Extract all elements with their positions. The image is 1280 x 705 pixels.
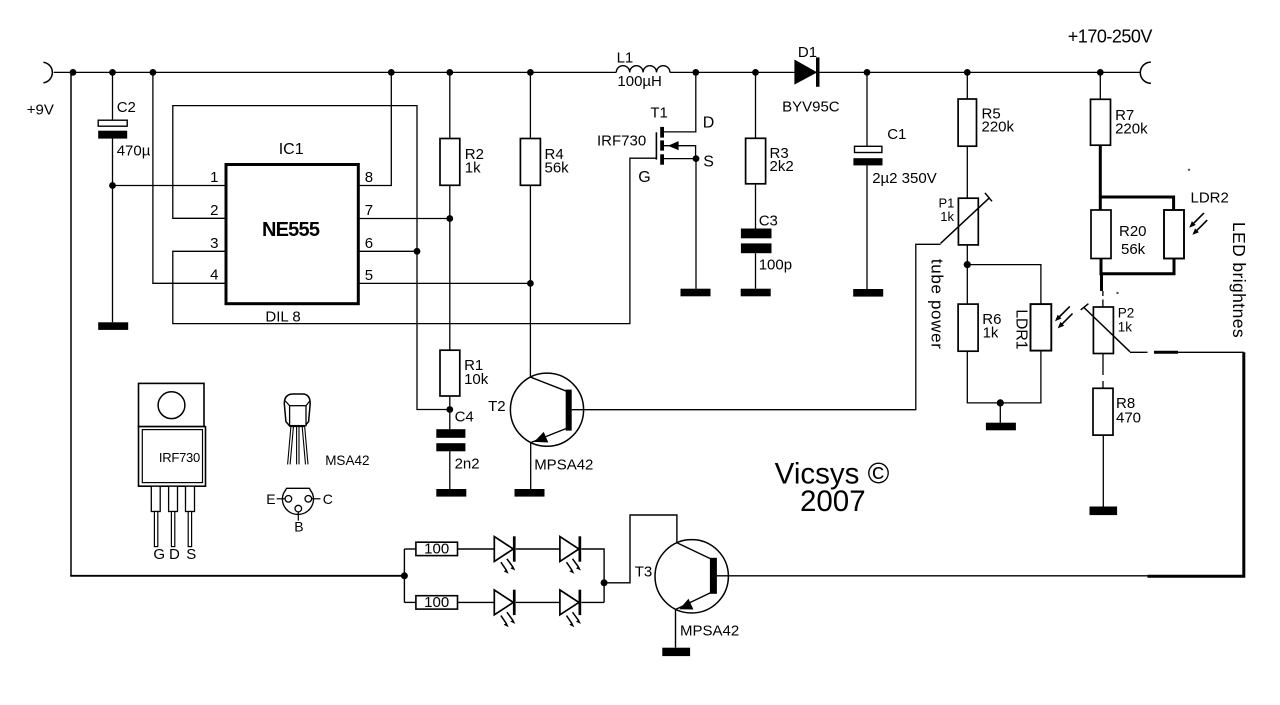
wire R8 to ground [1102,435,1104,506]
photoresistor LDR1 [1031,304,1052,351]
svg-text:B: B [294,519,303,535]
wire 100 bottom to LED D4 [458,601,495,603]
svg-text:C3: C3 [759,212,778,229]
wire pin2 to pin6/timing node [173,106,450,410]
node rail 71 [70,69,77,76]
ground C3 [741,289,771,297]
wire +9V to pin4 [153,72,226,283]
svg-text:MPSA42: MPSA42 [534,457,593,474]
svg-text:D1: D1 [798,44,817,61]
ground C1 [853,289,883,297]
svg-text:IRF730: IRF730 [597,132,646,149]
node rail C2 [109,69,116,76]
wire rail to C1 [866,72,868,146]
ground R8 [1090,507,1118,516]
svg-text:C: C [323,491,333,507]
resistor R3 [746,138,766,184]
capacitor C2 [112,72,114,120]
node pin7/R2 [446,215,453,222]
wire R5 to P1 [966,146,968,198]
svg-text:5: 5 [365,267,373,284]
inductor L1 [616,66,670,73]
wire pin6 stub [358,250,417,252]
package leads thin [154,512,157,547]
svg-text:220k: 220k [1115,121,1148,138]
diode D1 [795,60,816,83]
wire T1 drain [664,72,696,131]
svg-text:T3: T3 [635,563,653,580]
ground T1 source [681,289,711,297]
svg-text:MSA42: MSA42 [325,453,369,468]
svg-text:LED brightnes: LED brightnes [1229,222,1249,338]
MSA42 package TO-92 side view [284,394,310,426]
node rail R2 [446,69,453,76]
node C2/pin1 [109,182,116,189]
TO-92 legs [288,427,294,465]
wire R1 to C4 [449,396,451,429]
svg-text:2µ2 350V: 2µ2 350V [872,170,937,187]
wire rail to R4 [529,72,531,138]
svg-text:G: G [638,169,650,186]
svg-text:1k: 1k [940,209,954,224]
svg-text:MPSA42: MPSA42 [680,623,739,640]
ground T3 [662,648,690,656]
wire LED D3 to right node [581,549,604,602]
capacitor C3 [741,229,772,239]
transistor T1 IRF730 [655,132,657,159]
svg-text:4: 4 [210,267,218,284]
wire R20/LDR2 bottom (bold) [1100,259,1176,292]
svg-text:R20: R20 [1119,223,1147,240]
resistor R2 [440,139,460,186]
svg-text:IRF730: IRF730 [159,450,200,465]
svg-text:E: E [266,491,275,507]
ground T2 [515,489,545,497]
svg-text:D: D [169,546,180,563]
node rail pin4 [150,69,157,76]
pin C [305,496,312,503]
node pin6 [414,248,421,255]
svg-text:1: 1 [210,169,218,186]
node P1/R6/LDR1 [964,261,971,268]
LED block left node [401,572,408,579]
node R6/LDR1 ground [997,399,1004,406]
wire pin1 to C2 [113,185,227,187]
transistor T3 MPSA42 [655,540,728,613]
svg-text:2k2: 2k2 [770,158,794,175]
ground C4 [436,489,466,497]
node rail R4 [527,69,534,76]
wire R2 to R1 [449,185,451,350]
svg-text:D: D [703,115,715,132]
IRF730 package TO-220 [139,383,205,426]
svg-text:2n2: 2n2 [455,456,480,473]
wire node to LDR1 [967,265,1041,305]
svg-text:+9V: +9V [27,102,54,119]
package leads wide [151,486,160,511]
node rail T1 drain [692,69,699,76]
wire rail to R2 [449,72,451,138]
LED D5 [560,590,581,628]
svg-text:6: 6 [365,235,373,252]
svg-text:G: G [153,546,165,563]
wire pin7 to R2 [358,218,450,220]
wire P1 to R6 [966,245,968,304]
resistor 100 bottom [404,601,416,603]
wire left +9V drop to LED rail [70,72,72,575]
LED D3 [560,536,581,574]
svg-text:LDR1: LDR1 [1012,309,1029,349]
svg-text:S: S [703,153,714,170]
svg-text:S: S [186,546,196,563]
svg-text:DIL 8: DIL 8 [265,308,300,325]
svg-text:2007: 2007 [800,485,866,518]
svg-text:56k: 56k [545,160,570,177]
node pin5/R4 [527,280,534,287]
MSA42 bottom view [282,488,313,514]
svg-text:P2: P2 [1118,306,1135,321]
svg-text:1k: 1k [983,325,999,342]
wire 100 top to LED D2 [458,548,495,550]
pin B [295,505,302,512]
wire R4 to T2 collector [529,185,531,377]
svg-text:C1: C1 [887,126,906,143]
potentiometer P1 [958,198,978,245]
wire pin3 output to T1 gate [173,158,657,323]
wire R7 to R20/LDR2 (bold) [1100,145,1173,210]
LED D2 [494,536,515,574]
wire R6/LDR1 to ground [967,351,1041,423]
wire rail to R5 [966,72,968,99]
svg-text:LDR2: LDR2 [1191,190,1229,207]
capacitor C1 [855,146,882,152]
resistor 100 top [404,548,416,550]
svg-text:+170-250V: +170-250V [1068,26,1153,46]
resistor R8 [1093,388,1113,435]
resistor R6 [958,304,978,351]
wire LED D5 to right node [581,601,604,603]
svg-text:NE555: NE555 [262,219,320,241]
svg-text:220k: 220k [982,119,1015,136]
svg-text:1k: 1k [465,160,481,177]
ground R6/LDR1 [986,423,1016,431]
LED D4 [494,590,515,628]
svg-text:tube power: tube power [928,259,947,350]
svg-text:2: 2 [210,202,218,219]
wire +9V rail [54,71,1141,73]
svg-text:7: 7 [365,202,373,219]
photoresistor LDR2 [1164,210,1184,259]
resistor R5 [958,99,976,146]
node T1 source [693,155,700,162]
IC1 NE555 [226,165,358,304]
node rail pin8 [388,69,395,76]
svg-text:BYV95C: BYV95C [782,98,840,115]
LDR2 arrows [1189,213,1204,228]
svg-text:470: 470 [1116,410,1141,427]
wire rail to R7 [1099,72,1101,99]
svg-text:IC1: IC1 [279,141,304,158]
wire LED D2 to D3 [516,548,560,550]
node R1/C4 timing [446,406,453,413]
resistor R20 [1091,210,1111,259]
svg-text:10k: 10k [464,371,489,388]
wire pin5 to R4 [358,282,530,284]
transistor T2 MPSA42 [510,373,583,446]
node rail R7 [1097,69,1104,76]
LED block right node [601,579,608,586]
wire T1 source [664,159,696,289]
node rail R5 [964,69,971,76]
connector +9V input [43,62,52,83]
wire T2 base to P1 wiper [572,244,941,409]
svg-text:1k: 1k [1118,319,1133,334]
wire P2 to R8 [1102,354,1104,389]
speck artifacts [1116,292,1118,294]
resistor R7 [1091,99,1111,145]
ground C2 [98,322,128,330]
wire LED block to T3 collector [604,515,677,583]
svg-text:T1: T1 [650,105,668,122]
svg-text:8: 8 [365,169,373,186]
node rail R3 [752,69,759,76]
wire rail to R3 [755,72,757,138]
wire P2 wiper to T3 base [1130,351,1244,353]
wire T1 body diode [664,146,696,159]
svg-text:C2: C2 [117,99,136,116]
svg-text:100p: 100p [759,257,792,274]
wire R3 to C3 [755,184,757,229]
potentiometer P2 [1093,307,1113,354]
resistor R1 [440,350,460,396]
node rail C1 [864,69,871,76]
svg-text:L1: L1 [617,50,634,67]
wire pin8 to +9V rail [358,72,391,185]
pin E [285,496,292,503]
svg-text:100: 100 [424,594,449,611]
capacitor C4 [436,429,465,438]
svg-text:100µH: 100µH [617,73,662,90]
LDR1 arrows [1055,306,1070,321]
svg-text:470µ: 470µ [117,142,151,159]
wire to P2 [1102,291,1104,307]
svg-text:T2: T2 [488,398,506,415]
resistor R4 [520,139,540,186]
wire LED D4 to D5 [516,601,560,603]
svg-text:C4: C4 [455,408,474,425]
svg-text:100: 100 [424,541,449,558]
svg-text:3: 3 [210,235,218,252]
svg-text:56k: 56k [1121,241,1146,258]
connector +170-250V output [1140,62,1151,83]
